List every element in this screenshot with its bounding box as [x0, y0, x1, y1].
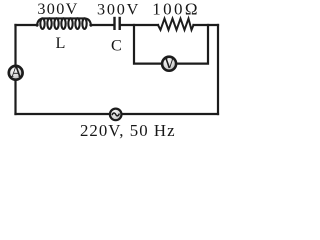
svg-text:100Ω: 100Ω — [152, 0, 200, 18]
svg-text:300V: 300V — [37, 0, 78, 18]
svg-text:C: C — [111, 37, 122, 55]
svg-text:220V, 50 Hz: 220V, 50 Hz — [80, 121, 176, 140]
svg-text:300V: 300V — [97, 0, 140, 18]
svg-text:L: L — [55, 34, 65, 52]
